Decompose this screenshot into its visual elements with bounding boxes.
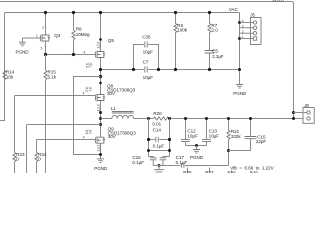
wire Q5 drain column: [100, 13, 102, 50]
svg-text:1,2,3: 1,2,3: [97, 41, 101, 48]
capacitor C35: [134, 45, 159, 70]
svg-text:C7: C7: [143, 60, 149, 65]
svg-text:0.01: 0.01: [152, 122, 161, 127]
svg-text:VOUT: VOUT: [272, 0, 285, 3]
node junction C35 C7 right: [157, 68, 160, 71]
svg-text:7,8: 7,8: [89, 63, 93, 68]
node junction top rail Q5: [99, 11, 102, 14]
ground PGND input: [236, 85, 243, 89]
wire filter link: [149, 150, 170, 152]
node switch junction a: [99, 111, 102, 114]
wire VAC top rail: [5, 12, 240, 14]
svg-text:10k: 10k: [6, 75, 14, 80]
wire output rail: [169, 118, 303, 120]
wire gate drive rail: [46, 54, 96, 56]
resistor R15: [44, 71, 47, 80]
svg-text:J6: J6: [304, 103, 309, 108]
node junction Q9 source: [99, 153, 102, 156]
wire Q4 gate to PGND: [23, 37, 41, 39]
node junction R8 bottom: [72, 53, 75, 56]
wire left border: [0, 13, 5, 121]
capacitor C14: [149, 119, 170, 157]
node junction C5 bottom: [208, 68, 211, 71]
svg-text:R29: R29: [250, 171, 259, 173]
node junction filter right: [168, 149, 171, 152]
wire feedback line: [153, 165, 228, 167]
resistor R20: [154, 117, 169, 120]
node pin merge Q8 drain: [99, 82, 102, 85]
node junction C14 left: [147, 138, 150, 141]
node junction VAC pin1: [238, 37, 241, 40]
svg-text:R8: R8: [76, 26, 82, 31]
svg-text:J5: J5: [250, 12, 255, 17]
svg-text:PGND: PGND: [190, 155, 204, 160]
node switch junction b: [99, 117, 102, 120]
svg-text:3: 3: [41, 47, 43, 51]
connector J6: [303, 108, 314, 124]
svg-text:4: 4: [83, 50, 85, 54]
resistor R24: [35, 153, 38, 162]
svg-text:L1: L1: [111, 106, 117, 111]
capacitor C36 right filter cap: [160, 158, 167, 160]
wire Q9 source down: [100, 145, 102, 159]
svg-text:Q4: Q4: [54, 33, 61, 38]
svg-text:1,2,3: 1,2,3: [97, 144, 101, 151]
resistor R28 cropped: [231, 171, 233, 174]
node junction R6 top: [174, 11, 177, 14]
svg-text:0.1µF: 0.1µF: [153, 143, 165, 148]
node junction C12 top: [184, 117, 187, 120]
connector J5: [251, 18, 262, 45]
capacitor C17: [182, 163, 184, 168]
svg-text:30V: 30V: [107, 91, 116, 96]
svg-text:30V: 30V: [108, 134, 117, 139]
node junction C14 right: [168, 138, 171, 141]
svg-text:10µF: 10µF: [209, 133, 220, 138]
resistor R27 cropped: [209, 168, 211, 174]
resistor R7: [209, 13, 211, 24]
svg-text:1: 1: [36, 34, 38, 38]
wire switch link line124: [27, 124, 101, 126]
svg-text:4: 4: [242, 19, 244, 23]
node junction R20 left: [147, 117, 150, 120]
capacitor C13: [206, 119, 208, 140]
node junction filter common: [158, 164, 161, 167]
resistor R23: [13, 153, 16, 162]
svg-text:2.0: 2.0: [212, 28, 219, 33]
svg-text:VAC: VAC: [229, 7, 239, 12]
node junction VAC pin4: [238, 21, 241, 24]
svg-text:Q5: Q5: [108, 38, 115, 43]
ground PGND filter cropped: [158, 166, 160, 170]
node junction R21 C15 bottom: [227, 149, 230, 152]
wire filter cap jogs: [149, 157, 170, 158]
transistor Q5: [95, 50, 105, 60]
node junction C13 top: [205, 117, 208, 120]
svg-text:C14: C14: [153, 128, 162, 133]
capacitor C15: [250, 119, 252, 137]
node junction caps common: [195, 144, 198, 147]
wire Q8 source to switch node: [100, 102, 102, 135]
svg-text:PGND: PGND: [16, 49, 30, 54]
ground PGND at Q4 gate: [22, 38, 24, 42]
svg-text:10µF: 10µF: [143, 49, 154, 54]
wire filter caps common: [153, 160, 163, 166]
wire Q5 source to mid rail: [100, 59, 102, 93]
svg-text:C5: C5: [212, 48, 218, 53]
wire Q9 gate line: [37, 139, 96, 141]
svg-text:332k: 332k: [231, 134, 242, 139]
svg-text:Vfb = 0.66 to 1.22V: Vfb = 0.66 to 1.22V: [230, 165, 274, 170]
transistor Q4: [40, 33, 50, 43]
svg-text:10µF: 10µF: [143, 75, 154, 80]
svg-text:1,2,3: 1,2,3: [97, 104, 101, 111]
node junction aux: [99, 75, 102, 78]
node junction PGND rail: [238, 68, 241, 71]
capacitor C16: [150, 158, 157, 160]
svg-text:1: 1: [242, 35, 244, 39]
ground PGND output caps: [196, 146, 198, 150]
transistor Q8: [95, 93, 105, 103]
capacitor C12: [185, 119, 187, 140]
resistor R21: [228, 119, 230, 131]
svg-text:5.1k: 5.1k: [48, 75, 57, 80]
capacitor C5: [205, 51, 215, 54]
wire mid PGND rail: [101, 69, 240, 71]
wire R23 column: [14, 96, 16, 153]
node junction R20 right: [168, 117, 171, 120]
svg-text:10Meg: 10Meg: [76, 32, 90, 37]
svg-text:R28: R28: [227, 171, 236, 173]
wire R24 column: [36, 140, 38, 153]
wire switch to L1: [101, 118, 112, 120]
ground PGND Q9: [97, 159, 104, 163]
svg-text:7,8: 7,8: [89, 130, 93, 135]
node junction top rail R8: [72, 11, 75, 14]
svg-text:22pF: 22pF: [256, 139, 267, 144]
wire Q4 drain: [45, 13, 47, 34]
svg-text:R26: R26: [183, 170, 192, 173]
wire line124 column: [26, 125, 28, 174]
capacitor C7: [145, 67, 147, 73]
wire VOUT feed line across top: [0, 2, 294, 119]
svg-text:10µF: 10µF: [187, 133, 198, 138]
node junction R21 top: [227, 117, 230, 120]
resistor R8: [73, 13, 75, 31]
svg-text:2.2µF: 2.2µF: [212, 54, 224, 59]
svg-text:0.1µF: 0.1µF: [132, 160, 144, 165]
node junction top rail Q4: [44, 11, 47, 14]
svg-text:100k: 100k: [177, 28, 188, 33]
wire Q8 gate line: [15, 95, 96, 97]
svg-text:3: 3: [242, 24, 244, 28]
svg-text:2: 2: [242, 30, 244, 34]
node pin merge Q5 drain: [99, 38, 102, 41]
wire C12 C13 join: [186, 145, 207, 147]
node junction C15 top: [249, 117, 252, 120]
svg-text:2: 2: [42, 26, 44, 30]
svg-text:R20: R20: [153, 111, 162, 116]
svg-text:PGND: PGND: [233, 91, 247, 96]
node junction J6 upper: [292, 111, 295, 114]
node switch junction c: [99, 123, 102, 126]
node junction Q5 source rail: [99, 68, 102, 71]
wire Q4 source: [45, 43, 47, 55]
resistor R26 cropped: [187, 168, 189, 174]
svg-text:7,8: 7,8: [89, 87, 93, 92]
svg-text:0.1µF: 0.1µF: [176, 160, 188, 165]
svg-text:PGND: PGND: [94, 166, 108, 171]
node junction J6 lower: [292, 117, 295, 120]
resistor R6: [175, 13, 177, 24]
node junction R6 bottom: [174, 68, 177, 71]
resistor R14: [3, 71, 6, 80]
transistor Q9: [95, 135, 105, 145]
svg-text:R27: R27: [205, 170, 214, 173]
node junction Q4 source: [44, 53, 47, 56]
node junction C35 C7 left: [132, 68, 135, 71]
svg-text:C35: C35: [142, 35, 151, 40]
wire VAC column down to PGND: [239, 13, 241, 85]
wire aux link down-left: [74, 77, 101, 155]
wire L1 to R20: [134, 118, 154, 120]
node junction R7 top: [208, 11, 211, 14]
node junction filter left: [147, 149, 150, 152]
